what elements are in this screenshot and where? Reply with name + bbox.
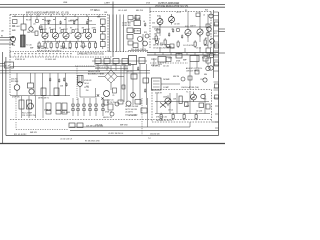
svg-text:COMP: COMP [163,87,169,89]
svg-text:47K .002: 47K .002 [151,65,158,67]
svg-text:VOLTAGE REGULATOR (V4, V5): VOLTAGE REGULATOR (V4, V5) [155,5,188,8]
svg-text:L-MET: L-MET [104,2,111,4]
svg-text:.25: .25 [112,95,114,97]
svg-text:8MF 680: 8MF 680 [37,46,44,48]
svg-text:.05 2M T1: .05 2M T1 [125,112,133,114]
svg-text:.002 680: .002 680 [165,47,172,49]
svg-text:10K 50K C16: 10K 50K C16 [37,48,48,50]
svg-text:R7 2M 470K 470K: R7 2M 470K 470K [85,141,100,143]
svg-text:R3: R3 [185,10,187,12]
svg-text:T-2: T-2 [148,138,151,140]
svg-text:C9 100K .002: C9 100K .002 [45,59,56,61]
svg-text:R12: R12 [160,43,163,45]
svg-text:C4 C16: C4 C16 [196,111,202,113]
svg-text:CARBURETOR TEST (V3): CARBURETOR TEST (V3) [77,52,104,55]
svg-text:2M R3 2M T1: 2M R3 2M T1 [38,98,49,100]
svg-text:R12: R12 [214,33,217,35]
svg-text:L4: L4 [203,15,205,17]
svg-text:.002: .002 [59,33,62,35]
svg-text:.05 R12 1M 250 L4: .05 R12 1M 250 L4 [108,133,123,135]
svg-text:22K 50K: 22K 50K [90,10,98,12]
svg-text:1M 2M: 1M 2M [60,46,66,48]
svg-text:.05: .05 [49,27,52,29]
svg-text:OUTPUT AMPLIFIER: OUTPUT AMPLIFIER [158,2,180,5]
svg-text:470K .01: 470K .01 [105,112,112,114]
svg-text:CONV BD: CONV BD [122,25,131,27]
svg-text:INPUT (AUDIO) AMPLIFIER (V1, V: INPUT (AUDIO) AMPLIFIER (V1, V2, V3) [26,11,69,14]
svg-text:ASSEMBLY PANEL: ASSEMBLY PANEL [88,72,105,75]
svg-text:AC IN: AC IN [5,64,10,67]
svg-text:C9 .25: C9 .25 [84,87,89,89]
svg-text:10K 470K: 10K 470K [95,124,103,126]
svg-text:LINE: LINE [63,2,68,4]
svg-text:22K 10K: 22K 10K [80,46,87,48]
svg-text:.01 T1: .01 T1 [176,12,181,14]
svg-text:250 250 50K: 250 250 50K [150,134,160,136]
svg-text:C16: C16 [200,79,203,81]
svg-text:1M R7: 1M R7 [46,21,51,23]
svg-text:680: 680 [122,64,125,66]
svg-text:C4 C16: C4 C16 [163,65,169,67]
svg-text:470K 47K: 470K 47K [84,80,92,82]
svg-text:R12 L4 8MF: R12 L4 8MF [22,112,33,114]
svg-text:L4 .002 250 50K: L4 .002 250 50K [125,106,139,108]
svg-text:C16: C16 [186,106,189,108]
svg-text:8MF 470K: 8MF 470K [120,125,129,127]
svg-text:.01 C4 C16 C9: .01 C4 C16 C9 [60,138,72,140]
svg-text:R12 8MF: R12 8MF [11,81,19,83]
svg-text:1M T1 10K 2M: 1M T1 10K 2M [125,109,137,111]
svg-text:8MF 47K: 8MF 47K [30,132,38,134]
svg-text:250: 250 [12,45,15,47]
svg-text:R7: R7 [95,64,97,66]
svg-text:50K R7: 50K R7 [190,25,196,27]
svg-text:680 250: 680 250 [136,10,143,12]
svg-text:C4 470K: C4 470K [127,21,134,23]
svg-text:8MF: 8MF [30,48,33,50]
svg-text:C9 C4: C9 C4 [168,110,173,112]
svg-text:R7: R7 [70,27,72,29]
svg-text:250: 250 [152,23,155,25]
svg-text:22K .25 R21 250: 22K .25 R21 250 [22,115,36,117]
svg-text:10K C16: 10K C16 [27,32,34,34]
svg-text:T1 .05: T1 .05 [186,92,191,94]
svg-text:R12: R12 [97,17,100,19]
svg-text:47K 47K C16: 47K 47K C16 [156,117,167,119]
svg-text:L4 1M 680: L4 1M 680 [128,115,137,117]
svg-text:.01: .01 [33,24,36,26]
svg-text:R7: R7 [47,33,49,35]
svg-text:L4 L4 .002: L4 L4 .002 [118,10,127,12]
svg-text:L4: L4 [143,21,145,23]
svg-text:C4 .25 470K: C4 .25 470K [183,45,194,47]
svg-text:C16: C16 [203,99,206,101]
svg-text:R7 C4 250: R7 C4 250 [107,102,116,104]
svg-text:C9 1M: C9 1M [196,48,202,50]
svg-text:T1 C16: T1 C16 [26,45,32,47]
svg-text:CIRCUIT THRU: CIRCUIT THRU [186,71,199,73]
svg-text:R3: R3 [205,38,207,40]
svg-text:10K 100K: 10K 100K [62,112,71,114]
svg-text:L4 10K: L4 10K [174,24,180,26]
svg-text:R7: R7 [214,54,216,56]
svg-text:250: 250 [86,90,89,92]
svg-text:4 OHM: 4 OHM [134,31,140,33]
svg-text:680 1M: 680 1M [173,76,179,78]
svg-text:1M 100K R3 .05 C4: 1M 100K R3 .05 C4 [156,120,172,122]
svg-text:100K C16: 100K C16 [68,21,76,23]
svg-text:C4: C4 [104,64,106,66]
svg-text:R12 .05 .05 R12: R12 .05 .05 R12 [14,134,26,136]
svg-text:.01 C9: .01 C9 [127,71,132,73]
svg-text:L4: L4 [59,27,61,29]
svg-text:470K R3 .01: 470K R3 .01 [15,59,25,61]
svg-text:1M L4: 1M L4 [84,83,89,85]
svg-text:10K 22K C16: 10K 22K C16 [60,48,71,50]
svg-text:680: 680 [204,74,207,76]
svg-text:R21: R21 [144,32,147,34]
svg-text:2M 8MF: 2M 8MF [163,79,170,81]
svg-text:680 R12 C4: 680 R12 C4 [103,117,112,119]
svg-text:R21: R21 [202,58,205,60]
svg-text:R21: R21 [205,10,208,12]
svg-text:470K R7: 470K R7 [155,93,162,95]
